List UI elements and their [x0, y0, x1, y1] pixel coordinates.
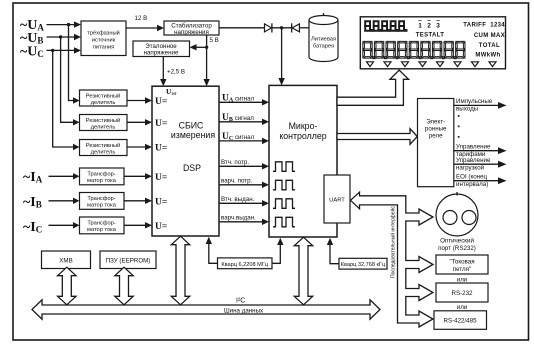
- measuring VLSI (SBIS) DSP block U1: [152, 86, 219, 236]
- wire varh delivered pulse SBIS to MCU: [219, 221, 263, 223]
- svg-text:контроллер: контроллер: [279, 131, 326, 141]
- svg-text:CUM MAX: CUM MAX: [474, 33, 505, 39]
- svg-text:Трансфор-: Трансфор-: [87, 172, 115, 178]
- wire battery node down to microcontroller: [281, 28, 283, 79]
- svg-text:ХМВ: ХМВ: [59, 258, 72, 265]
- LCD small digits row: [365, 21, 407, 31]
- wire diode junction: [272, 27, 292, 29]
- junction UC: [51, 49, 54, 52]
- svg-text:Резистивный: Резистивный: [86, 117, 120, 124]
- svg-text:делитель: делитель: [91, 100, 116, 106]
- UART block: [324, 175, 350, 223]
- wire +2.5V reference down to SBIS: [162, 57, 164, 81]
- svg-text:U=: U=: [155, 222, 167, 232]
- svg-text:~: ~: [418, 18, 422, 25]
- wire IC to transformer 3: [49, 224, 75, 226]
- svg-text:U=: U=: [155, 97, 167, 107]
- voltage stabilizer: [164, 21, 219, 35]
- wire varh consumed pulse SBIS to MCU: [219, 184, 263, 186]
- wire transformer 1 to SBIS: [124, 175, 146, 177]
- double arrow EEPROM to bus: [115, 267, 133, 305]
- svg-text:батарея: батарея: [313, 44, 334, 50]
- display channel arrow MCU to LCD: [337, 70, 409, 105]
- electronic relays block: [418, 99, 454, 187]
- svg-text:матор тока: матор тока: [87, 203, 117, 209]
- wire 5V branch to reference: [196, 46, 207, 48]
- pulse waveform icon 2: [273, 180, 295, 190]
- pulse waveform icon 4: [273, 217, 295, 227]
- svg-text:TESTALT: TESTALT: [416, 32, 445, 38]
- double arrow MCU to bus: [294, 237, 312, 305]
- svg-text:измерения: измерения: [171, 130, 215, 140]
- svg-text:реле: реле: [429, 133, 443, 140]
- svg-text:Элект-: Элект-: [426, 119, 445, 126]
- XMB block: [42, 251, 91, 269]
- svg-text:Трансфор-: Трансфор-: [87, 196, 115, 202]
- current transformer 2: [80, 193, 125, 210]
- svg-text:U=: U=: [155, 173, 167, 183]
- diode D2: [292, 24, 299, 32]
- svg-text:Шина данных: Шина данных: [224, 308, 264, 315]
- svg-text:~: ~: [427, 18, 431, 25]
- wire UB branch to divider 2: [61, 37, 74, 122]
- svg-text:Трансфор-: Трансфор-: [87, 221, 115, 227]
- svg-text:Микро-: Микро-: [289, 121, 318, 131]
- wire stabilizer to diodes: [219, 27, 265, 29]
- svg-text:питания: питания: [93, 45, 114, 51]
- svg-text:UART: UART: [329, 198, 345, 204]
- wire UB to power supply: [47, 36, 76, 38]
- svg-text:петля": петля": [453, 266, 471, 273]
- svg-text:Литиевая: Литиевая: [311, 37, 336, 43]
- wire UC signal SBIS to MCU: [219, 140, 263, 142]
- svg-text:интервала): интервала): [456, 181, 488, 188]
- diode D1: [265, 24, 272, 32]
- optical port circle: [436, 194, 478, 236]
- LCD cursor triangles row: [367, 62, 497, 67]
- svg-text:TOTAL: TOTAL: [479, 43, 500, 49]
- crystal 6.2208 MHz box: [218, 258, 273, 269]
- svg-text:U=: U=: [155, 197, 167, 207]
- svg-text:+2,5 В: +2,5 В: [167, 69, 185, 76]
- wire UA to power supply: [47, 24, 76, 26]
- svg-text:Втч. выдан.: Втч. выдан.: [221, 196, 255, 203]
- svg-text:выходы: выходы: [456, 106, 479, 113]
- reference voltage block: [133, 41, 190, 57]
- svg-text:Резистивный: Резистивный: [86, 92, 120, 99]
- wire IB to transformer 2: [49, 200, 75, 202]
- svg-text:варч. потр.: варч. потр.: [221, 177, 253, 184]
- wire IA to transformer 1: [49, 175, 75, 177]
- LCD display module: [360, 17, 505, 69]
- svg-text:5 В: 5 В: [210, 37, 219, 44]
- wire EOI output: [454, 180, 499, 182]
- svg-text:RS-422/485: RS-422/485: [443, 318, 477, 325]
- svg-text:EOI (конец: EOI (конец: [456, 174, 488, 181]
- junction battery node: [280, 26, 283, 29]
- wire UB signal SBIS to MCU: [219, 121, 263, 123]
- svg-text:делитель: делитель: [91, 124, 116, 130]
- svg-text:варч.выдан.: варч.выдан.: [221, 214, 256, 221]
- svg-text:Импульсные: Импульсные: [456, 98, 493, 105]
- wire UC branch to divider 3: [53, 50, 74, 147]
- relay channel arrow MCU to relays: [337, 129, 417, 145]
- current transformer 1: [80, 168, 125, 185]
- wire Wh delivered pulse SBIS to MCU: [219, 202, 263, 204]
- svg-text:СБИС: СБИС: [179, 121, 204, 131]
- wire transformer 3 to SBIS: [124, 224, 146, 226]
- junction UA: [67, 23, 70, 26]
- resistive divider 3: [80, 140, 128, 156]
- svg-text:UB сигнал: UB сигнал: [222, 113, 254, 123]
- current transformer 3: [80, 217, 125, 234]
- resistive divider 2: [80, 115, 128, 131]
- svg-text:нагрузкой: нагрузкой: [456, 164, 485, 171]
- svg-text:12 В: 12 В: [135, 15, 148, 22]
- wire crystal 32k to MCU: [330, 244, 339, 264]
- wire tariff control: [454, 150, 499, 152]
- svg-text:I²C: I²C: [236, 298, 245, 305]
- svg-text:Кварц 6,2208 МГц: Кварц 6,2208 МГц: [221, 262, 268, 268]
- svg-text:Втч. потр.: Втч. потр.: [221, 159, 249, 166]
- wire crystal to MCU: [272, 244, 280, 263]
- current loop box: [436, 255, 488, 274]
- wire transformer 2 to SBIS: [124, 200, 146, 202]
- svg-text:источник: источник: [92, 38, 116, 44]
- wire 5V stabilizer down to SBIS: [206, 35, 208, 80]
- svg-text:Кварц 32,768 кГц: Кварц 32,768 кГц: [341, 262, 386, 268]
- svg-text:Управление: Управление: [456, 157, 491, 164]
- junction UB: [59, 35, 62, 38]
- wire UC to power supply: [47, 49, 76, 51]
- pulse waveform icon 1: [273, 162, 295, 172]
- wire divider 2 to SBIS: [127, 121, 146, 123]
- svg-text:порт (RS232): порт (RS232): [438, 245, 476, 252]
- svg-text:Оптический: Оптический: [440, 238, 474, 245]
- svg-text:напряжения: напряжения: [174, 29, 209, 36]
- svg-text:"Токовая: "Токовая: [449, 259, 474, 266]
- svg-text:~: ~: [436, 18, 440, 25]
- svg-text:матор тока: матор тока: [87, 227, 117, 233]
- three-phase power supply unit: [81, 21, 126, 56]
- wire pulse outputs: [454, 104, 499, 106]
- svg-text:ронные: ронные: [425, 126, 447, 133]
- wire Wh consumed pulse SBIS to MCU: [219, 165, 263, 167]
- svg-text:матор тока: матор тока: [87, 178, 117, 184]
- EEPROM block: [100, 251, 156, 269]
- svg-text:U=: U=: [155, 144, 167, 154]
- svg-text:RS-232: RS-232: [452, 290, 474, 297]
- serial interface channel tree from UART: [351, 192, 434, 327]
- wire UA branch to divider 1: [69, 25, 75, 101]
- svg-text:или: или: [457, 304, 468, 311]
- RS-422/485 box: [434, 311, 487, 330]
- crystal 32.768 kHz box: [339, 258, 387, 269]
- RS-232 box: [436, 283, 488, 302]
- svg-text:UA сигнал: UA сигнал: [222, 93, 255, 103]
- ellipsis dots: [458, 115, 460, 117]
- wire 12V power to stabilizer: [126, 27, 158, 29]
- wire load control: [454, 163, 499, 165]
- I2C data bus arrow: [32, 300, 380, 319]
- LCD phase indicators 1 2 3: [418, 18, 440, 30]
- LCD big digits row: [363, 41, 465, 58]
- wire crystal to SBIS: [209, 243, 218, 263]
- svg-text:MWkWh: MWkWh: [475, 53, 500, 59]
- svg-text:UC сигнал: UC сигнал: [222, 132, 255, 142]
- wire UA signal SBIS to MCU: [219, 101, 263, 103]
- svg-text:TARIFF 1234: TARIFF 1234: [463, 23, 505, 29]
- svg-text:Управление: Управление: [456, 144, 491, 151]
- svg-text:Последовательный интерфейс: Последовательный интерфейс: [390, 206, 397, 278]
- svg-text:делитель: делитель: [91, 149, 116, 155]
- svg-text:ПЗУ (EEPROM): ПЗУ (EEPROM): [106, 258, 151, 265]
- wire divider 3 to SBIS: [127, 146, 146, 148]
- wire divider 1 to SBIS: [127, 100, 146, 102]
- svg-text:Резистивный: Резистивный: [86, 142, 120, 149]
- pulse waveform icon 3: [273, 199, 295, 209]
- svg-text:напряжение: напряжение: [144, 49, 179, 56]
- double arrow XMB to bus: [58, 267, 76, 305]
- wire diode to battery: [299, 27, 309, 29]
- svg-text:U=: U=: [155, 119, 167, 129]
- svg-text:трёхфазный: трёхфазный: [87, 30, 120, 37]
- microcontroller U2: [269, 85, 337, 237]
- lithium battery: [309, 20, 338, 62]
- double arrow SBIS to bus: [171, 236, 189, 305]
- svg-text:DSP: DSP: [183, 163, 201, 173]
- junction 5V branch: [205, 46, 208, 49]
- resistive divider 1: [80, 90, 128, 106]
